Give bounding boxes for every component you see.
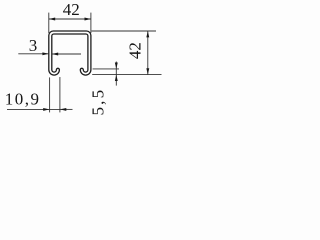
arrow pointing right at outer wall (3 dim) <box>42 52 48 55</box>
dimension line 5,5 upper tail <box>115 62 117 75</box>
svg-text:5,5: 5,5 <box>89 88 108 116</box>
arrow left of top 42 <box>49 18 55 21</box>
dimension line right 42 <box>147 31 149 75</box>
extension line top for right 42 dim <box>92 30 157 32</box>
arrow pointing up at bottom line (5,5) <box>115 75 118 81</box>
dimension line 5,5 lower tail <box>115 75 117 86</box>
svg-text:42: 42 <box>63 0 80 19</box>
svg-text:3: 3 <box>29 36 38 55</box>
arrow pointing left at inner wall (3 dim) <box>52 53 58 56</box>
dimension tail right of 10,9 <box>60 108 73 110</box>
channel profile outline <box>49 31 91 75</box>
arrow right of top 42 <box>85 18 91 21</box>
arrow pointing left at right ext (10,9) <box>60 108 66 111</box>
svg-text:10,9: 10,9 <box>5 90 41 109</box>
svg-text:42: 42 <box>126 42 145 59</box>
dimension line 3 right tail <box>52 53 81 55</box>
arrow down right 42 <box>146 68 149 74</box>
extension line left for 10,9 dim <box>49 77 51 112</box>
extension line right of top 42 dim <box>90 13 92 33</box>
extension line right for 10,9 dim <box>59 77 61 112</box>
extension line lip-tip level for 5,5 dim <box>93 68 119 70</box>
extension line bottom (shared by right 42 and 5,5 dims) <box>92 74 161 76</box>
dimension line 10,9 <box>7 108 60 110</box>
arrow pointing down at lip-tip line (5,5) <box>115 63 118 69</box>
extension line left of top 42 dim <box>48 13 50 33</box>
dimension line 3 left part <box>18 53 49 55</box>
arrow up right 42 <box>146 31 149 37</box>
arrow pointing right at left ext (10,9) <box>43 108 49 111</box>
dimension line top 42 <box>49 18 91 20</box>
